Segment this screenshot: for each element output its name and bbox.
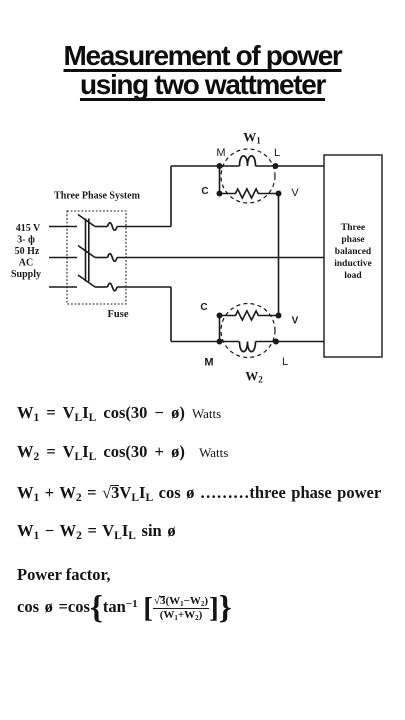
- svg-text:W2: W2: [245, 369, 263, 385]
- wattmeter W1 dashed circle: [221, 149, 275, 203]
- node L of W1: [273, 163, 279, 169]
- node C of W2: [217, 313, 223, 319]
- svg-text:L: L: [282, 356, 288, 368]
- fuse F3: [108, 283, 118, 291]
- formula W1+W2: [17, 484, 381, 502]
- W1 current coil: [240, 156, 256, 166]
- label: load text: [334, 223, 372, 281]
- svg-text:M: M: [204, 357, 213, 369]
- wire: phase 1 riser up: [170, 166, 172, 227]
- switch blade phase 2: [78, 246, 95, 258]
- wire: supply stub phase 2: [49, 257, 77, 259]
- fuse and switch enclosure (dotted box): [67, 211, 126, 304]
- formula power factor: [17, 595, 232, 621]
- svg-text:50 Hz: 50 Hz: [15, 246, 40, 257]
- svg-text:3- ф: 3- ф: [17, 235, 35, 246]
- svg-text:C: C: [200, 302, 207, 313]
- svg-text:W1: W1: [243, 130, 261, 146]
- formula W1: [17, 404, 221, 423]
- wire: fuse F1 output to riser: [117, 226, 171, 228]
- wire: W2 coil line M to L: [220, 341, 277, 343]
- node V of W2: [276, 313, 282, 319]
- switch gang bar: [86, 219, 89, 282]
- fuse F2: [108, 254, 118, 262]
- fuse F1: [108, 223, 118, 231]
- supply specification label 415V 3-phase 50Hz AC Supply: [11, 223, 41, 280]
- wire: supply stub phase 3: [49, 286, 77, 288]
- formula W1-W2: [17, 522, 176, 540]
- wire: W1 M to C: [219, 166, 221, 194]
- wire: phase 1 to wattmeter W1 node M: [171, 165, 220, 167]
- svg-text:Three: Three: [341, 223, 365, 233]
- svg-text:balanced: balanced: [335, 247, 372, 257]
- wattmeter W2 dashed circle: [221, 304, 275, 358]
- svg-text:inductive: inductive: [334, 259, 371, 269]
- wire: phase 2 line to load: [117, 257, 324, 259]
- svg-text:C: C: [201, 186, 208, 197]
- svg-text:load: load: [344, 271, 362, 281]
- svg-text:L: L: [274, 147, 280, 159]
- wire: blade to fuse phase 3: [95, 286, 108, 288]
- svg-text:Supply: Supply: [11, 269, 41, 280]
- wire: phase 3 to wattmeter W2 node M: [171, 341, 220, 343]
- switch blade phase 3: [78, 275, 95, 287]
- wire: blade to fuse phase 2: [95, 257, 108, 259]
- svg-text:V: V: [291, 187, 299, 199]
- wire: supply stub phase 1: [49, 226, 77, 228]
- node V of W1: [276, 191, 282, 197]
- formula W2: [17, 443, 228, 462]
- wire: blade to fuse phase 1: [95, 226, 108, 228]
- svg-text:Three Phase System: Three Phase System: [54, 191, 141, 202]
- svg-text:phase: phase: [341, 235, 364, 245]
- svg-text:V: V: [292, 316, 299, 327]
- wire: pressure coils to middle phase (vertical): [278, 194, 280, 316]
- node M of W1: [217, 163, 223, 169]
- node M of W2: [217, 339, 223, 345]
- wire: W1 coil line M to L: [220, 165, 276, 167]
- W2 pressure coil resistor: [220, 311, 279, 320]
- wire: W2 M to C: [219, 316, 221, 342]
- W2 current coil: [240, 342, 256, 352]
- switch blade phase 1: [78, 215, 95, 227]
- wire: fuse F3 output to riser: [117, 286, 171, 288]
- svg-text:AC: AC: [19, 258, 33, 269]
- load box: three phase balanced inductive load: [324, 155, 382, 357]
- node L of W2: [273, 339, 279, 345]
- wire: W2 L to load: [276, 341, 324, 343]
- label: Power factor: [17, 566, 110, 584]
- node C of W1: [217, 191, 223, 197]
- W1 pressure coil resistor: [220, 189, 279, 198]
- svg-text:Fuse: Fuse: [108, 309, 129, 320]
- wire: phase 3 riser down: [170, 287, 172, 342]
- svg-text:M: M: [216, 147, 225, 159]
- wire: W1 L to load: [276, 165, 325, 167]
- svg-text:415 V: 415 V: [16, 223, 41, 234]
